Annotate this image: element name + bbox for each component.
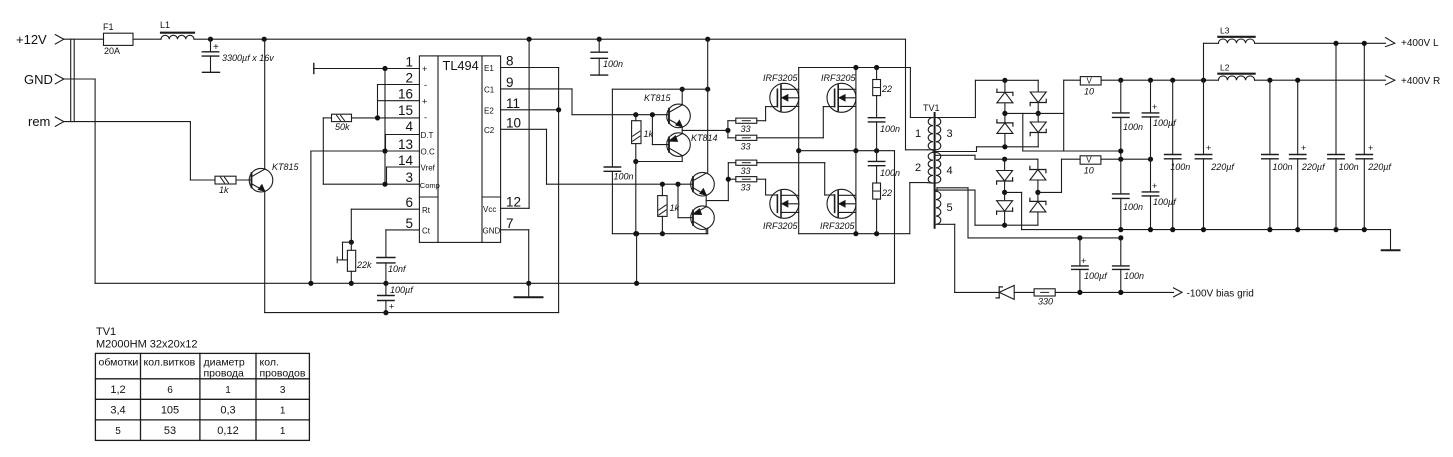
output arrow +400V L: [1386, 38, 1439, 49]
svg-text:+: +: [422, 97, 427, 107]
svg-text:+: +: [422, 64, 427, 74]
table TV1 row 2: [110, 405, 286, 417]
transistor IRF3205 top-left: [763, 73, 799, 112]
capacitor 220uf output R: [1195, 80, 1235, 229]
wire rem to 1k: [64, 122, 215, 180]
table TV1 row 1: [110, 384, 286, 396]
svg-text:+400V R: +400V R: [1401, 76, 1440, 87]
node driver rail to GND drop: [634, 231, 639, 236]
wire winding4 top out: [936, 155, 1005, 159]
svg-text:C1: C1: [484, 86, 495, 95]
resistor 33 gate TR: [736, 135, 757, 151]
input terminal rem: [28, 114, 64, 129]
capacitor 100n driver decoupling: [604, 89, 633, 234]
ground symbol: [515, 283, 543, 297]
wire Vcc2 rail: [265, 68, 559, 313]
node 100n col at GND rail: [1118, 227, 1123, 232]
wire lower PNP base drop: [678, 184, 693, 218]
wire pin10 C2 to lower driver base: [501, 129, 693, 184]
resistor 1k rem: [215, 176, 236, 195]
TL494 pin numbers right: [506, 54, 521, 231]
wire TL drain-source vertical: [798, 68, 800, 151]
wire pin5 Ct stub: [386, 230, 420, 257]
node lower base at 1k: [660, 182, 665, 187]
table TV1 grid: [95, 353, 309, 440]
wire pin16 stub: [378, 100, 420, 102]
wire winding5 bottom out: [937, 224, 955, 292]
svg-text:IRF3205: IRF3205: [763, 73, 799, 83]
svg-text:100n: 100n: [880, 168, 900, 178]
svg-text:-100V bias grid: -100V bias grid: [1187, 289, 1254, 300]
svg-text:220µf: 220µf: [1367, 162, 1392, 172]
wire drain rail top: [799, 67, 911, 69]
wire lower emitters junction: [706, 195, 728, 207]
transformer winding 1: [915, 118, 933, 150]
svg-text:E2: E2: [484, 107, 494, 116]
svg-text:100µf: 100µf: [390, 285, 414, 295]
transistor IRF3205 bottom-left: [763, 189, 799, 231]
wire lower col2 mid to V10: [1038, 159, 1062, 192]
svg-text:33: 33: [741, 183, 751, 193]
diode lower col1 A: [997, 159, 1013, 192]
svg-text:20A: 20A: [104, 46, 120, 56]
capacitor 220uf output R2: [1290, 80, 1327, 229]
wire winding4 bottom out: [936, 190, 1005, 225]
svg-text:100n: 100n: [1123, 202, 1143, 212]
trimmer 22k Rt: [337, 240, 372, 272]
svg-text:проводов: проводов: [260, 368, 306, 380]
wire +400V L rail: [1204, 42, 1386, 44]
svg-text:100n: 100n: [614, 172, 634, 182]
wire L3 branch riser: [1203, 43, 1205, 80]
transistor KT815 input switch: [249, 162, 299, 192]
wire source rail bottom: [799, 233, 910, 235]
transistor KT815 upper driver: [644, 93, 690, 128]
svg-text:Ct: Ct: [422, 227, 431, 236]
transformer winding 5: [936, 191, 953, 224]
node pin3: [382, 182, 387, 187]
wire pins 2-16-15 vertical: [377, 85, 379, 118]
svg-text:Vcc: Vcc: [483, 205, 496, 214]
wire KT815 collector to +12V: [264, 39, 266, 169]
TL494 pin labels right: [483, 64, 501, 236]
resistor 330 bias: [1034, 289, 1173, 307]
node bias 100n at line: [1118, 290, 1123, 295]
wire +12V drop to lower NPN collector: [707, 39, 709, 173]
node upper V10 output: [1118, 78, 1123, 83]
svg-text:1: 1: [915, 128, 921, 140]
wire pin6 Rt stub: [351, 209, 419, 242]
svg-text:10nf: 10nf: [388, 264, 407, 274]
svg-text:0,12: 0,12: [217, 425, 238, 437]
node collector at rail: [680, 87, 685, 92]
node bias rail at 100n col: [1118, 235, 1123, 240]
node +12V at driver collector drop: [705, 37, 710, 42]
wire upper rect Z link: [1023, 113, 1121, 151]
wire pins 1-13-3 vertical: [384, 69, 386, 185]
svg-text:+: +: [1301, 143, 1306, 153]
svg-text:33: 33: [741, 166, 751, 176]
node 100uf at Vcc2 rail: [383, 310, 388, 315]
svg-text:22: 22: [881, 188, 892, 198]
svg-text:провода: провода: [204, 368, 245, 380]
wire winding3 top out: [936, 80, 975, 117]
svg-text:9: 9: [506, 75, 514, 90]
svg-text:3300µf x 16v: 3300µf x 16v: [222, 53, 274, 63]
table TV1 row 3: [115, 425, 286, 437]
wire +400V R rail: [1121, 79, 1386, 81]
node pin15 junction: [375, 115, 380, 120]
wire input bundle verticals: [71, 39, 75, 121]
svg-text:220µf: 220µf: [1210, 162, 1235, 172]
node mid rail TR: [853, 148, 858, 153]
wire 33 to BL gate: [757, 179, 766, 195]
wire mid rail to GND drop: [894, 151, 896, 284]
svg-text:Comp: Comp: [420, 181, 440, 190]
svg-text:100n: 100n: [1124, 271, 1144, 281]
svg-text:IRF3205: IRF3205: [763, 221, 799, 231]
node +12V at 100n cap: [597, 37, 602, 42]
wire pin3 stub: [385, 183, 419, 185]
wire pin14 stub: [387, 167, 420, 184]
svg-text:Rt: Rt: [422, 206, 431, 215]
node bias 100uf at line: [1077, 290, 1082, 295]
diode bias: [955, 285, 1034, 299]
svg-text:3: 3: [280, 385, 286, 396]
svg-text:GND: GND: [483, 227, 501, 236]
svg-text:+: +: [1081, 256, 1086, 266]
node source rail BR: [853, 231, 858, 236]
node +12V at Vcc drop: [527, 37, 532, 42]
svg-text:TL494: TL494: [443, 58, 479, 73]
wire upper rect mid bus: [1005, 112, 1064, 114]
node 1k at driver rail: [633, 231, 638, 236]
wire pin2 stub: [378, 84, 420, 86]
node upper col2 mid: [1036, 111, 1041, 116]
node pin1: [382, 66, 387, 71]
op-amp U1 TL494 body: [419, 56, 500, 243]
svg-text:12: 12: [506, 194, 521, 209]
svg-text:100µf: 100µf: [1153, 197, 1177, 207]
node +12V at input cap: [208, 37, 213, 42]
capacitor 100n top middle: [591, 39, 623, 75]
svg-text:330: 330: [1038, 297, 1053, 307]
svg-text:100n: 100n: [1273, 162, 1293, 172]
svg-text:6: 6: [405, 195, 413, 210]
capacitor 100n output L: [1328, 43, 1359, 229]
svg-text:50k: 50k: [335, 122, 350, 132]
wire +12V rail: [194, 38, 906, 40]
wire GND rail: [95, 282, 894, 284]
inductor L3: [1218, 26, 1254, 44]
svg-text:53: 53: [164, 425, 176, 437]
svg-text:100µf: 100µf: [1084, 271, 1108, 281]
node mid rail snubber: [874, 148, 879, 153]
wire center tap stub: [927, 150, 933, 153]
wire lower emitter to 33 resistors: [728, 163, 736, 201]
wire driver rail to GND rail: [636, 234, 638, 284]
svg-text:кол.витков: кол.витков: [144, 357, 196, 369]
capacitor 100n output 2: [1165, 80, 1191, 229]
capacitor 10nf Ct: [377, 258, 407, 284]
svg-text:-: -: [424, 80, 427, 90]
capacitor 100uf soft start: [378, 283, 415, 312]
wire driver rail: [612, 233, 707, 235]
wire KT815 emitter to Vcc2 rail: [264, 191, 266, 312]
wire winding2 stub: [927, 182, 933, 185]
svg-text:33: 33: [741, 124, 751, 134]
svg-text:5: 5: [947, 202, 953, 214]
capacitor 100n output 3: [1262, 80, 1293, 229]
svg-text:+: +: [1152, 181, 1157, 191]
wire collector rail y89: [612, 88, 707, 90]
node 220ufL at GND rail: [1362, 227, 1367, 232]
node L rail 100n: [1333, 41, 1338, 46]
wire 1k to KT815 base: [236, 179, 252, 181]
diode lower col2 D: [1030, 192, 1046, 225]
resistor 33 gate TL: [736, 118, 757, 134]
capacitor 220uf output L: [1356, 43, 1392, 229]
wire lower rect top rail: [1005, 158, 1038, 160]
resistor 22 snubber top: [873, 68, 892, 96]
node L rail 220uf: [1362, 41, 1367, 46]
wire TR drain-source vertical: [855, 68, 857, 151]
capacitor 100uf output lower: [1142, 159, 1177, 229]
svg-text:KT814: KT814: [691, 133, 718, 143]
wire pin12 Vcc: [501, 39, 529, 208]
svg-text:100n: 100n: [1170, 162, 1190, 172]
capacitor 3300uf x 16v: [202, 39, 274, 72]
wire 33 to TR gate: [757, 107, 824, 138]
resistor 50k feedback: [332, 114, 352, 132]
svg-text:1k: 1k: [644, 129, 654, 139]
svg-text:+: +: [389, 302, 394, 312]
capacitor 100n col1 lower: [1113, 159, 1143, 229]
transistor IRF3205 top-right: [821, 73, 857, 112]
wire pin11 E2: [501, 109, 559, 111]
resistor 10 lower 5W: [1062, 156, 1151, 176]
svg-text:1: 1: [280, 406, 286, 417]
node lower 33 junction: [726, 177, 731, 182]
wire BR drain-source vertical: [855, 151, 857, 234]
wire BL drain-source vertical: [798, 151, 800, 234]
wire winding5 top out: [937, 188, 1121, 238]
wire pin8 E1: [501, 67, 559, 69]
input terminal +12V: [16, 32, 64, 47]
TL494 pin labels left: [420, 64, 440, 236]
svg-text:1: 1: [225, 385, 231, 396]
diode upper col1 A: [997, 80, 1013, 113]
node pin13 drop at GND rail: [308, 281, 313, 286]
wire 33 to BR gate: [757, 163, 825, 195]
wire lower rect mid Z to GND: [1005, 192, 1391, 229]
node lower V10 out at 100n column: [1118, 157, 1123, 162]
resistor 22 snubber bottom: [873, 183, 892, 234]
diode upper col2 C: [1030, 80, 1046, 113]
output arrow -100V bias grid: [1174, 288, 1254, 300]
node 100uf col at GND rail: [1148, 227, 1153, 232]
wire 1k to driver rail: [635, 162, 637, 234]
svg-text:+: +: [1368, 143, 1373, 153]
node Ct at GND rail: [383, 281, 388, 286]
wire winding3 bottom out: [936, 147, 1038, 152]
node upper col1 bottom: [1002, 144, 1007, 149]
svg-text:IRF3205: IRF3205: [820, 221, 856, 231]
svg-text:10: 10: [1084, 166, 1094, 176]
wire 50k to pin3: [323, 118, 385, 184]
wire +12V to center tap: [906, 39, 928, 150]
node upper base split: [650, 112, 655, 117]
diode lower col1 B: [997, 192, 1013, 225]
svg-text:F1: F1: [103, 22, 114, 32]
svg-text:1k: 1k: [219, 185, 229, 195]
wire pin13 stub: [311, 150, 420, 152]
svg-text:4: 4: [405, 119, 413, 134]
wire lower col2 bottom to rail: [1005, 224, 1038, 226]
capacitor 100uf bias: [1072, 238, 1109, 293]
node drain rail TR: [853, 65, 858, 70]
resistor 33 gate BL: [736, 177, 757, 193]
ground symbol output: [1382, 230, 1400, 251]
node bias rail at 100uf: [1077, 235, 1082, 240]
svg-text:5: 5: [405, 216, 413, 231]
wire pin1 to terminal bar: [314, 64, 420, 74]
transformer winding 2: [915, 153, 933, 184]
capacitor 100n snubber bottom: [868, 151, 900, 183]
node R rail L3 branch: [1201, 78, 1206, 83]
svg-text:TV1: TV1: [923, 103, 940, 113]
node collector rail at +12V drop: [705, 87, 710, 92]
svg-text:33: 33: [741, 141, 751, 151]
svg-text:E1: E1: [484, 64, 494, 73]
diode upper col2 D: [1030, 113, 1046, 146]
svg-text:GND: GND: [24, 72, 53, 87]
wire KT815 collector: [681, 89, 683, 105]
svg-text:11: 11: [506, 96, 520, 111]
wire upper emitters junction: [682, 127, 728, 134]
wire winding1 stub: [927, 117, 933, 119]
capacitor 100n col1 output: [1113, 80, 1143, 159]
svg-text:3: 3: [947, 128, 953, 140]
node E2 junction: [556, 107, 561, 112]
transformer winding 3: [936, 118, 953, 150]
node mid rail TL: [796, 148, 801, 153]
svg-text:6: 6: [167, 385, 173, 396]
wire 22k to GND rail: [350, 271, 352, 283]
svg-text:L1: L1: [160, 20, 170, 30]
node source rail snubber: [874, 231, 879, 236]
resistor 33 gate BR: [736, 160, 757, 176]
capacitor 100n snubber top: [868, 96, 900, 151]
node 1k lower at driver rail: [660, 231, 665, 236]
svg-text:+: +: [213, 42, 219, 53]
transformer winding 4: [936, 153, 953, 184]
resistor 1k lower: [658, 184, 680, 234]
svg-text:1: 1: [280, 426, 286, 437]
wire pin7 GND: [501, 230, 529, 283]
capacitor 100n bias: [1113, 238, 1144, 293]
inductor L2: [1218, 62, 1254, 80]
wire lower PNP collector: [705, 229, 707, 234]
transistor IRF3205 bottom-right: [820, 189, 856, 231]
transistor lower driver NPN: [691, 172, 715, 196]
wire GND input: [64, 79, 95, 283]
node lower col2 mid: [1035, 190, 1040, 195]
node lower base split: [675, 182, 680, 187]
svg-text:rem: rem: [28, 114, 50, 129]
transformer TV1 core: [923, 103, 940, 228]
node 100n col mid link: [1118, 148, 1123, 153]
svg-text:1: 1: [405, 55, 413, 70]
transistor KT814 upper driver: [667, 133, 718, 157]
svg-text:4: 4: [947, 165, 953, 177]
node upper rect col1 top: [1002, 78, 1007, 83]
svg-text:2: 2: [915, 162, 921, 174]
node R rail 100n col: [1170, 78, 1175, 83]
inductor L1: [160, 20, 194, 39]
svg-text:обмотки: обмотки: [99, 357, 139, 369]
node 100n2 at GND rail: [1170, 227, 1175, 232]
wire mid rail: [799, 150, 895, 152]
node 100n3 at GND rail: [1267, 227, 1272, 232]
svg-text:5: 5: [115, 426, 121, 437]
wire drain rail to primary top: [910, 68, 927, 118]
svg-text:100n: 100n: [1123, 122, 1143, 132]
svg-text:3,4: 3,4: [110, 405, 125, 417]
svg-text:D.T: D.T: [421, 131, 434, 140]
svg-text:100n: 100n: [880, 124, 900, 134]
svg-text:+: +: [1206, 143, 1211, 153]
svg-text:3: 3: [405, 170, 413, 185]
wire pin9 C1 to upper driver base: [501, 89, 668, 115]
resistor 10 upper 5W: [1064, 77, 1121, 97]
wire pin4 stub: [386, 135, 420, 152]
node drain rail snubber: [874, 65, 879, 70]
table TV1 header: [99, 357, 306, 380]
svg-text:-: -: [424, 113, 427, 123]
svg-text:22k: 22k: [356, 260, 372, 270]
svg-text:16: 16: [398, 87, 413, 102]
transistor lower driver PNP: [691, 206, 715, 230]
table TV1 title: [96, 326, 198, 351]
svg-text:L3: L3: [1220, 26, 1230, 36]
node 22k at GND rail: [349, 281, 354, 286]
svg-text:13: 13: [398, 137, 413, 152]
node driver GND at rail: [634, 281, 639, 286]
svg-text:1,2: 1,2: [110, 384, 125, 396]
svg-text:10: 10: [506, 115, 521, 130]
svg-text:М2000НМ 32х20х12: М2000НМ 32х20х12: [96, 339, 198, 351]
node pin7 at GND rail: [526, 281, 531, 286]
wire fuse to L1: [133, 38, 161, 40]
wire source rail to primary bottom: [910, 183, 928, 234]
svg-text:KT815: KT815: [272, 162, 300, 172]
output arrow +400V R: [1386, 76, 1441, 87]
node 220uf2 at GND rail: [1295, 227, 1300, 232]
svg-text:10: 10: [1084, 87, 1094, 97]
svg-text:+12V: +12V: [16, 32, 47, 47]
wire +12V to fuse: [64, 38, 104, 40]
svg-text:0,3: 0,3: [220, 405, 235, 417]
node lower V10 out at 100uf column: [1148, 157, 1153, 162]
svg-text:100n: 100n: [603, 59, 623, 69]
wire pin15 stub: [352, 117, 420, 119]
svg-text:O.C: O.C: [421, 148, 435, 157]
svg-text:100µf: 100µf: [1153, 118, 1177, 128]
svg-text:7: 7: [506, 216, 514, 231]
svg-text:105: 105: [161, 405, 179, 417]
svg-text:L2: L2: [1220, 62, 1230, 72]
